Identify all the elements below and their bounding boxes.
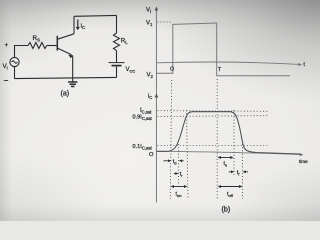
wire bottom rail <box>15 77 117 78</box>
dotted vertical O line <box>170 80 171 199</box>
svg-text:O: O <box>149 152 154 158</box>
dotted 0.1 level <box>158 145 268 147</box>
arrowhead t axis top <box>298 63 302 66</box>
tr arrow <box>174 172 179 175</box>
wire resistor to battery <box>116 51 118 63</box>
svg-text:0.1IC,sat: 0.1IC,sat <box>133 144 153 151</box>
svg-text:(b): (b) <box>222 204 231 213</box>
wire collector up <box>73 16 75 34</box>
waveform iC curve <box>157 112 300 154</box>
svg-text:VCC: VCC <box>126 67 136 74</box>
dotted 0.9 level <box>158 115 268 118</box>
svg-text:0.9IC,sat: 0.9IC,sat <box>133 115 153 122</box>
dotted vertical 0.1 rise <box>178 144 180 184</box>
pulse waveform Vi <box>156 23 290 76</box>
svg-text:+: + <box>5 42 9 49</box>
wire emitter down <box>72 55 74 82</box>
td arrow left <box>164 159 172 162</box>
tf arrow left <box>229 170 234 173</box>
dotted vertical T line <box>216 79 218 199</box>
dotted vertical 0.9 rise <box>187 110 189 199</box>
svg-text:toff: toff <box>227 191 234 197</box>
minus sign <box>4 80 8 82</box>
arrow IC <box>76 20 80 31</box>
wire source top to resistor <box>15 46 29 58</box>
svg-text:iC: iC <box>148 94 152 101</box>
svg-text:(a): (a) <box>61 91 70 98</box>
svg-text:V1: V1 <box>146 21 153 28</box>
arrowhead Vi axis <box>155 7 159 11</box>
tf arrow right <box>243 170 248 173</box>
dotted V1 level <box>158 21 173 23</box>
ground <box>69 82 77 87</box>
source Vi circle <box>10 57 19 66</box>
svg-text:td: td <box>173 159 177 165</box>
wire source bottom <box>14 67 16 79</box>
battery VCC <box>109 63 125 66</box>
wire battery to bottom rail <box>116 67 118 78</box>
dotted vertical 0.9 fall <box>233 110 235 177</box>
toff arrow <box>218 185 243 188</box>
svg-text:V2: V2 <box>147 73 154 80</box>
svg-text:O: O <box>170 66 174 72</box>
svg-text:time: time <box>299 159 308 164</box>
resistor RL <box>114 33 120 51</box>
svg-text:ton: ton <box>176 191 182 197</box>
axis Vi vertical <box>155 9 157 203</box>
resistor RS <box>28 43 47 49</box>
svg-text:Vi: Vi <box>146 8 151 15</box>
dotted ICsat level <box>158 110 268 113</box>
axis t bottom graph <box>156 151 301 154</box>
axis t top graph <box>156 62 299 64</box>
ton arrow <box>171 185 188 188</box>
dotted vertical 0.1 fall <box>242 144 244 199</box>
wire right branch upper <box>116 15 118 33</box>
arrowhead t axis bottom <box>300 153 304 156</box>
transistor Q1 <box>57 34 74 58</box>
arrowhead iC axis <box>155 94 159 98</box>
ts arrow <box>218 156 234 159</box>
wire resistor to base <box>47 45 57 47</box>
svg-text:ts: ts <box>224 161 228 167</box>
wire top rail <box>74 14 117 17</box>
td arrow right <box>179 159 184 162</box>
svg-text:IC: IC <box>81 24 86 31</box>
